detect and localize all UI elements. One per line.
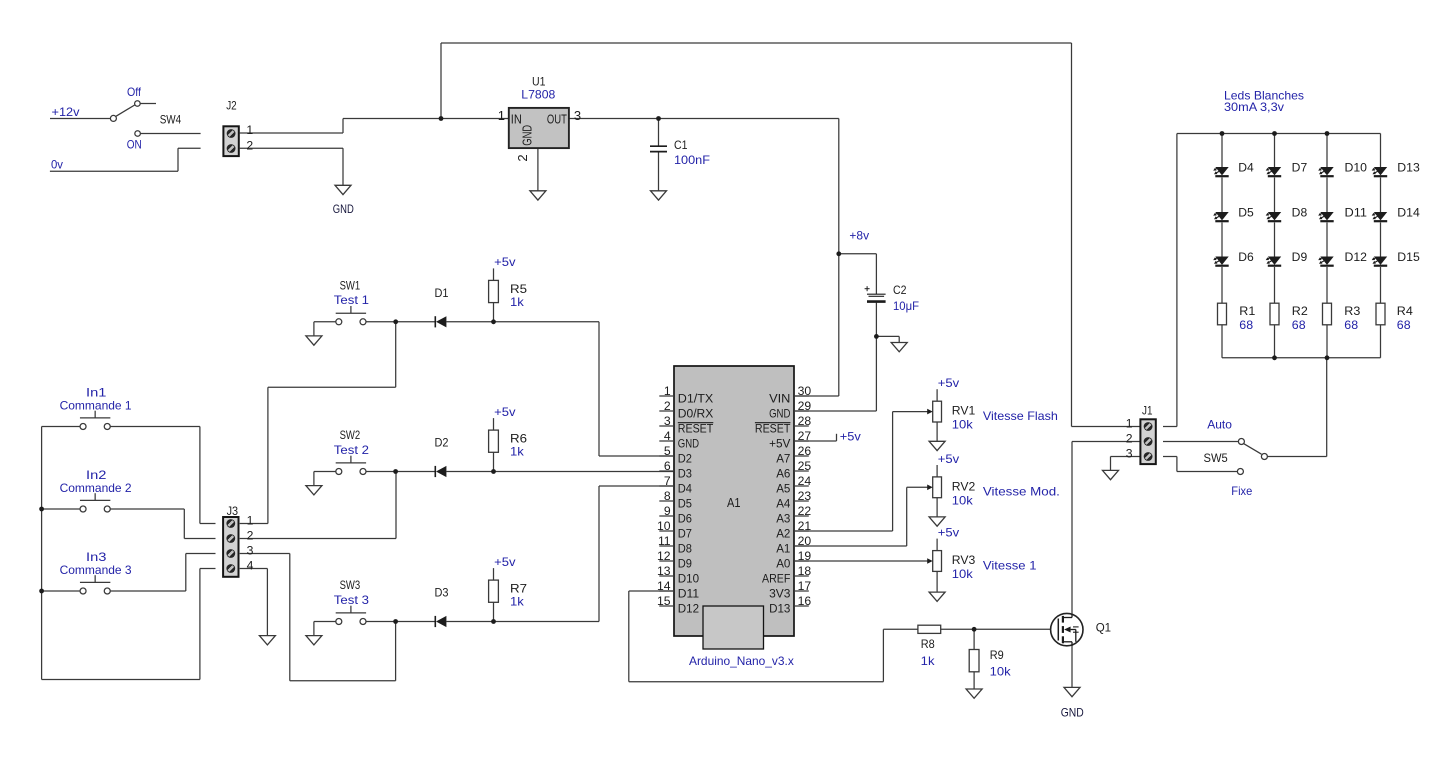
svg-text:R9: R9 <box>990 648 1004 662</box>
svg-text:+5v: +5v <box>494 555 515 569</box>
svg-text:8: 8 <box>664 489 671 503</box>
svg-text:R5: R5 <box>510 282 527 296</box>
svg-text:D10: D10 <box>1345 160 1368 174</box>
svg-text:Test 3: Test 3 <box>334 593 370 607</box>
svg-text:+5v: +5v <box>938 525 959 539</box>
svg-text:27: 27 <box>798 429 812 443</box>
svg-text:Auto: Auto <box>1207 417 1232 431</box>
svg-text:GND: GND <box>519 125 534 146</box>
svg-text:Commande 2: Commande 2 <box>60 481 132 495</box>
svg-text:D4: D4 <box>678 482 692 496</box>
svg-text:J1: J1 <box>1142 404 1153 418</box>
svg-text:A0: A0 <box>776 557 790 571</box>
svg-text:1: 1 <box>498 108 505 123</box>
svg-text:3: 3 <box>574 108 581 123</box>
svg-text:A7: A7 <box>776 452 790 466</box>
svg-text:3: 3 <box>664 414 671 428</box>
svg-text:GND: GND <box>333 202 354 216</box>
svg-text:C2: C2 <box>893 283 907 297</box>
svg-text:OUT: OUT <box>547 111 567 126</box>
svg-text:10μF: 10μF <box>893 299 919 313</box>
svg-text:RV1: RV1 <box>952 404 976 418</box>
svg-text:D13: D13 <box>769 602 791 616</box>
svg-text:RESET: RESET <box>678 422 714 436</box>
svg-text:D1: D1 <box>435 286 449 300</box>
svg-text:15: 15 <box>657 594 671 608</box>
svg-text:D7: D7 <box>1292 160 1308 174</box>
svg-text:D14: D14 <box>1397 205 1420 219</box>
svg-text:25: 25 <box>798 459 812 473</box>
svg-text:Fixe: Fixe <box>1231 484 1252 498</box>
svg-text:IN: IN <box>511 111 522 126</box>
svg-text:D6: D6 <box>678 512 692 526</box>
svg-text:30: 30 <box>798 384 812 398</box>
svg-text:5: 5 <box>664 444 671 458</box>
svg-text:Arduino_Nano_v3.x: Arduino_Nano_v3.x <box>689 654 794 668</box>
svg-text:+5v: +5v <box>938 452 959 466</box>
svg-text:100nF: 100nF <box>674 153 710 167</box>
svg-text:D9: D9 <box>1292 250 1308 264</box>
svg-text:R4: R4 <box>1397 304 1413 318</box>
svg-text:A1: A1 <box>727 496 741 510</box>
svg-text:10k: 10k <box>952 493 974 507</box>
svg-text:ON: ON <box>127 138 142 152</box>
svg-text:A6: A6 <box>776 467 790 481</box>
svg-text:Vitesse 1: Vitesse 1 <box>983 558 1037 572</box>
svg-text:Vitesse Mod.: Vitesse Mod. <box>983 485 1060 499</box>
svg-text:Q1: Q1 <box>1096 620 1112 634</box>
svg-text:1k: 1k <box>510 445 525 459</box>
svg-text:1: 1 <box>246 123 253 137</box>
svg-text:D12: D12 <box>678 602 700 616</box>
svg-text:D2: D2 <box>435 436 449 450</box>
svg-text:D5: D5 <box>1238 205 1254 219</box>
svg-text:68: 68 <box>1292 318 1306 332</box>
svg-text:Test 2: Test 2 <box>334 443 370 457</box>
svg-text:12: 12 <box>657 549 671 563</box>
svg-text:2: 2 <box>246 138 253 152</box>
svg-text:19: 19 <box>798 549 812 563</box>
svg-text:Commande 3: Commande 3 <box>60 563 132 577</box>
svg-text:Commande 1: Commande 1 <box>60 398 132 412</box>
svg-text:D4: D4 <box>1238 160 1254 174</box>
svg-text:10k: 10k <box>952 567 974 581</box>
svg-text:Test 1: Test 1 <box>334 293 370 307</box>
svg-text:6: 6 <box>664 459 671 473</box>
svg-text:4: 4 <box>247 558 254 572</box>
svg-text:68: 68 <box>1239 318 1253 332</box>
svg-text:A2: A2 <box>776 527 790 541</box>
svg-text:D5: D5 <box>678 497 692 511</box>
svg-text:SW2: SW2 <box>340 428 361 442</box>
svg-text:A1: A1 <box>776 542 790 556</box>
svg-text:9: 9 <box>664 504 671 518</box>
svg-text:SW1: SW1 <box>340 278 361 292</box>
svg-text:4: 4 <box>664 429 671 443</box>
svg-text:R1: R1 <box>1239 304 1255 318</box>
svg-text:2: 2 <box>1126 431 1133 445</box>
svg-text:+5v: +5v <box>494 405 515 419</box>
svg-text:R8: R8 <box>921 637 935 651</box>
svg-text:1k: 1k <box>510 295 525 309</box>
svg-text:3: 3 <box>247 543 254 557</box>
svg-text:D10: D10 <box>678 572 700 586</box>
svg-text:D0/RX: D0/RX <box>678 407 714 421</box>
svg-text:0v: 0v <box>51 158 63 172</box>
svg-text:1k: 1k <box>510 595 525 609</box>
svg-text:22: 22 <box>798 504 812 518</box>
svg-text:D8: D8 <box>1292 205 1308 219</box>
svg-text:D9: D9 <box>678 557 692 571</box>
svg-text:D3: D3 <box>678 467 692 481</box>
svg-text:1k: 1k <box>921 654 936 668</box>
svg-text:D1/TX: D1/TX <box>678 392 714 406</box>
svg-text:29: 29 <box>798 399 812 413</box>
svg-text:C1: C1 <box>674 138 688 152</box>
svg-text:68: 68 <box>1397 318 1411 332</box>
svg-text:20: 20 <box>798 534 812 548</box>
svg-text:24: 24 <box>798 474 812 488</box>
svg-text:7: 7 <box>664 474 671 488</box>
svg-text:+5v: +5v <box>938 376 959 390</box>
svg-text:Off: Off <box>127 85 142 99</box>
svg-text:SW3: SW3 <box>340 578 361 592</box>
svg-text:1: 1 <box>247 513 254 527</box>
svg-text:3: 3 <box>1126 446 1133 460</box>
svg-text:10k: 10k <box>952 418 974 432</box>
svg-text:R2: R2 <box>1292 304 1308 318</box>
svg-text:GND: GND <box>1061 706 1084 720</box>
svg-text:21: 21 <box>798 519 812 533</box>
svg-text:J3: J3 <box>227 504 239 518</box>
svg-text:D3: D3 <box>435 586 449 600</box>
svg-text:D15: D15 <box>1397 250 1420 264</box>
svg-text:D8: D8 <box>678 542 692 556</box>
svg-text:RV3: RV3 <box>952 553 976 567</box>
svg-text:R3: R3 <box>1344 304 1360 318</box>
svg-text:17: 17 <box>798 579 812 593</box>
svg-text:VIN: VIN <box>769 392 790 406</box>
svg-text:2: 2 <box>515 154 530 161</box>
svg-text:+5v: +5v <box>494 255 515 269</box>
svg-text:D11: D11 <box>678 587 700 601</box>
svg-text:GND: GND <box>678 437 699 451</box>
svg-text:10k: 10k <box>990 665 1012 679</box>
svg-text:18: 18 <box>798 564 812 578</box>
svg-text:+5v: +5v <box>840 429 861 443</box>
svg-text:RESET: RESET <box>755 422 791 436</box>
svg-text:U1: U1 <box>532 74 546 88</box>
svg-text:AREF: AREF <box>762 572 790 586</box>
svg-text:3V3: 3V3 <box>769 587 791 601</box>
svg-text:30mA 3,3v: 30mA 3,3v <box>1224 100 1284 114</box>
svg-text:D6: D6 <box>1238 250 1254 264</box>
svg-text:R7: R7 <box>510 582 527 596</box>
svg-text:Vitesse Flash: Vitesse Flash <box>983 409 1058 423</box>
svg-text:28: 28 <box>798 414 812 428</box>
svg-text:14: 14 <box>657 579 671 593</box>
svg-text:D2: D2 <box>678 452 692 466</box>
svg-text:RV2: RV2 <box>952 479 976 493</box>
svg-text:SW5: SW5 <box>1204 451 1228 465</box>
svg-text:D7: D7 <box>678 527 692 541</box>
svg-text:1: 1 <box>1126 416 1133 430</box>
svg-text:SW4: SW4 <box>160 113 182 127</box>
svg-text:13: 13 <box>657 564 671 578</box>
svg-text:D13: D13 <box>1397 160 1420 174</box>
svg-text:26: 26 <box>798 444 812 458</box>
svg-text:D12: D12 <box>1345 250 1368 264</box>
svg-text:2: 2 <box>247 528 254 542</box>
svg-text:D11: D11 <box>1345 205 1368 219</box>
svg-text:A3: A3 <box>776 512 790 526</box>
svg-text:A5: A5 <box>776 482 790 496</box>
svg-text:+8v: +8v <box>849 229 869 243</box>
svg-text:1: 1 <box>664 384 671 398</box>
svg-text:GND: GND <box>769 407 790 421</box>
svg-text:R6: R6 <box>510 432 527 446</box>
svg-text:J2: J2 <box>226 99 237 113</box>
svg-text:11: 11 <box>658 534 671 548</box>
svg-text:16: 16 <box>798 594 812 608</box>
svg-text:2: 2 <box>664 399 671 413</box>
svg-text:68: 68 <box>1344 318 1358 332</box>
svg-text:10: 10 <box>657 519 671 533</box>
svg-text:+5V: +5V <box>769 437 791 451</box>
svg-text:L7808: L7808 <box>521 88 555 102</box>
svg-text:23: 23 <box>798 489 812 503</box>
svg-text:+12v: +12v <box>52 105 80 119</box>
svg-text:A4: A4 <box>776 497 790 511</box>
